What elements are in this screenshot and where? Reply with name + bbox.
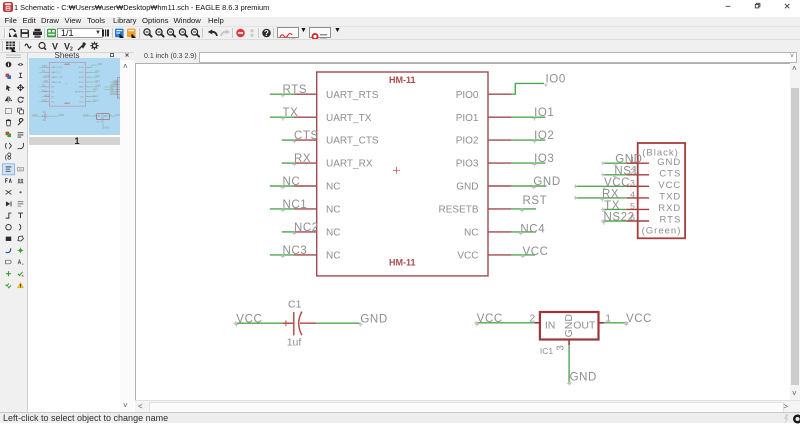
svg-text:IO1: IO1 xyxy=(534,107,554,119)
svg-text:CTS: CTS xyxy=(294,130,319,142)
svg-text:GND: GND xyxy=(615,154,642,166)
svg-text:PIO1: PIO1 xyxy=(456,113,479,124)
svg-text:RX: RX xyxy=(602,188,619,200)
svg-text:UART_TX: UART_TX xyxy=(326,113,372,124)
svg-text:VCC: VCC xyxy=(658,180,681,191)
svg-text:NC: NC xyxy=(326,228,340,239)
svg-text:C1: C1 xyxy=(288,299,302,311)
svg-text:IO0: IO0 xyxy=(546,73,566,85)
svg-text:GND: GND xyxy=(456,182,478,193)
svg-text:VCC: VCC xyxy=(236,313,262,325)
svg-text:NC2: NC2 xyxy=(294,222,319,234)
svg-text:TX: TX xyxy=(604,200,620,212)
svg-text:NC3: NC3 xyxy=(283,245,308,257)
svg-text:UART_CTS: UART_CTS xyxy=(326,136,379,147)
svg-text:HM-11: HM-11 xyxy=(389,258,416,268)
svg-text:NC4: NC4 xyxy=(520,224,545,236)
svg-text:V: V xyxy=(52,42,58,52)
svg-text:IC1: IC1 xyxy=(540,346,554,356)
svg-text:3: 3 xyxy=(630,178,635,188)
svg-text:(Green): (Green) xyxy=(642,226,682,237)
svg-text:VCC: VCC xyxy=(457,251,478,262)
svg-text:GND: GND xyxy=(657,157,681,168)
svg-text:HM-11: HM-11 xyxy=(389,75,416,85)
svg-text:IO2: IO2 xyxy=(534,130,554,142)
svg-text:RTS: RTS xyxy=(659,215,681,226)
svg-text:NC: NC xyxy=(464,228,478,239)
svg-text:PIO3: PIO3 xyxy=(456,159,479,170)
svg-text:?: ? xyxy=(264,29,269,38)
svg-text:RESETB: RESETB xyxy=(438,205,478,216)
svg-text:3: 3 xyxy=(556,345,567,351)
svg-text:NS22: NS22 xyxy=(604,212,635,224)
svg-text:NS1: NS1 xyxy=(614,165,638,177)
svg-text:TX: TX xyxy=(283,107,299,119)
svg-text:VCC: VCC xyxy=(604,177,630,189)
svg-text:RX: RX xyxy=(294,153,311,165)
svg-text:VCC: VCC xyxy=(477,313,503,325)
svg-text:1: 1 xyxy=(605,314,611,325)
svg-text:OUT: OUT xyxy=(573,320,596,332)
svg-text:UART_RX: UART_RX xyxy=(326,159,373,170)
svg-text:NC1: NC1 xyxy=(283,199,308,211)
svg-text:NC: NC xyxy=(326,205,340,216)
svg-text:GND: GND xyxy=(563,314,575,338)
svg-text:NC: NC xyxy=(283,176,301,188)
svg-text:NC: NC xyxy=(326,251,340,262)
svg-text:GND: GND xyxy=(570,372,597,384)
svg-text:NC: NC xyxy=(326,182,340,193)
svg-text:VCC: VCC xyxy=(626,313,652,325)
svg-text:1uf: 1uf xyxy=(287,336,302,348)
svg-text:RTS: RTS xyxy=(283,84,308,96)
svg-text:VCC: VCC xyxy=(523,246,549,258)
svg-text:PIO2: PIO2 xyxy=(456,136,479,147)
svg-text:RST: RST xyxy=(523,195,548,207)
svg-text:IN: IN xyxy=(545,320,556,332)
svg-text:IO3: IO3 xyxy=(534,153,554,165)
svg-text:4: 4 xyxy=(630,189,635,199)
svg-text:UART_RTS: UART_RTS xyxy=(326,90,379,101)
svg-text:CTS: CTS xyxy=(659,169,681,180)
svg-text:PIO0: PIO0 xyxy=(456,90,479,101)
svg-text:RXD: RXD xyxy=(658,203,681,214)
svg-text:2: 2 xyxy=(530,314,536,325)
svg-text:GND: GND xyxy=(533,176,560,188)
svg-text:5: 5 xyxy=(630,201,635,211)
svg-text:GND: GND xyxy=(360,313,387,325)
svg-text:TXD: TXD xyxy=(659,192,681,203)
